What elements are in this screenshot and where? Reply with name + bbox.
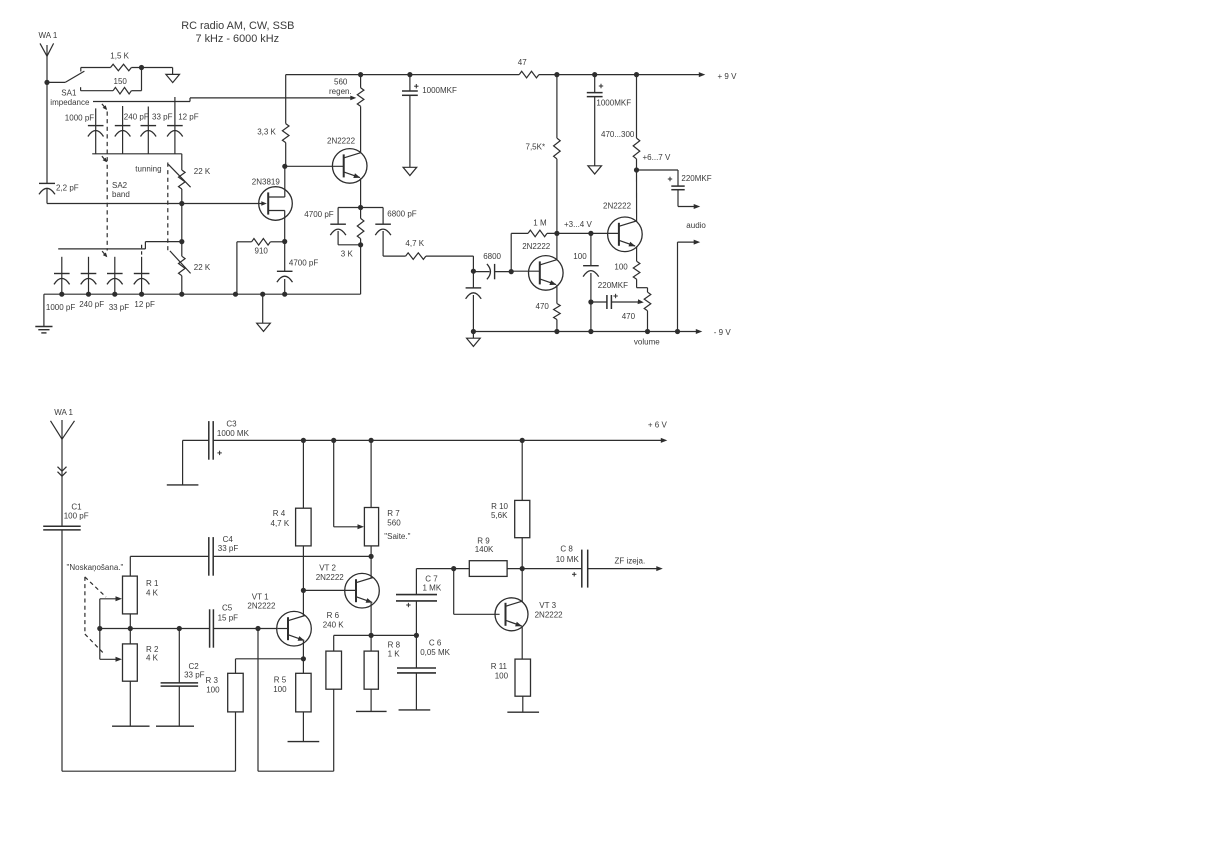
svg-text:R 3: R 3 [206,676,219,685]
wire detector collector up [556,233,558,259]
wire R7 wiper feed [334,440,364,529]
wire audio stage collector [636,170,638,221]
capacitor C3 1000 MK [183,419,250,459]
svg-text:+ 6 V: + 6 V [648,421,668,430]
wire 4,7K to coupling node [426,256,476,274]
wire feedback from base node [258,629,334,772]
ground (earth, left) [35,294,52,333]
svg-text:2N2222: 2N2222 [535,610,564,619]
svg-text:220MKF: 220MKF [598,281,628,290]
resistor 150 [113,77,131,94]
capacitor 240 pF (top bank) [115,106,149,154]
resistor R8 1 K [364,635,401,711]
potentiometer 560 regen [329,75,364,107]
resistor R10 5,6K [491,440,530,568]
wire ground bus (top circuit) [44,292,361,297]
svg-text:R 2: R 2 [146,645,159,654]
svg-text:tunning: tunning [135,164,161,173]
svg-text:12 pF: 12 pF [178,113,199,122]
transistor VT1 2N2222 [247,592,311,646]
svg-text:47: 47 [518,58,527,67]
svg-text:220MKF: 220MKF [681,174,711,183]
svg-text:band: band [112,190,130,199]
transistor VT2 2N2222 [316,563,380,608]
variable resistor 22 K (tuning, upper) [168,154,211,204]
svg-text:470: 470 [622,312,636,321]
svg-text:3,3 K: 3,3 K [257,128,276,137]
svg-text:7 kHz - 6000 kHz: 7 kHz - 6000 kHz [196,33,280,45]
svg-text:33 pF: 33 pF [152,113,173,122]
svg-text:audio: audio [686,221,706,230]
svg-text:2N2222: 2N2222 [522,242,551,251]
potentiometer R7 560 Saite [364,440,410,559]
svg-text:22 K: 22 K [194,263,211,272]
svg-text:VT 1: VT 1 [252,592,269,601]
svg-text:100: 100 [573,252,587,261]
wire 1M to +3..4V node [547,220,618,236]
svg-text:150: 150 [114,77,128,86]
svg-text:R 5: R 5 [274,676,287,685]
wire 1M feed up [511,233,528,271]
wire +6V rail [213,421,667,444]
svg-text:WA 1: WA 1 [54,408,73,417]
ground (C2) [156,725,194,727]
ground (C6) [399,709,431,711]
wire SA1 top throw [81,67,111,69]
svg-text:33 pF: 33 pF [109,303,130,312]
wire bottom-bank switch bus [58,242,182,249]
svg-text:impedance: impedance [50,98,90,107]
antenna WA1 (top) [39,31,58,56]
resistor R6 240 K [323,611,345,689]
node antenna-SA1 junction [44,80,49,85]
wire SA1 bottom throw [81,90,114,92]
svg-text:240 K: 240 K [323,620,345,629]
ground (1000MKF left) [403,167,417,175]
ground (R11) [507,711,539,713]
svg-text:15 pF: 15 pF [218,613,239,622]
wire base node (mid) [97,626,209,631]
capacitor 4700 pF (source bypass) [277,242,318,295]
ground (R8) [356,710,387,712]
capacitor 33 pF (bottom bank) [107,257,129,312]
svg-text:100 pF: 100 pF [64,511,89,520]
wire emitter node horizontal [338,207,383,209]
ground (SA1) [166,74,180,82]
svg-text:100: 100 [273,685,287,694]
capacitor 2,2 pF [39,183,79,203]
svg-text:RC radio AM, CW, SSB: RC radio AM, CW, SSB [181,20,294,32]
wire 1,5K to ground [131,65,172,75]
transistor 2N2222 (detector) [522,242,563,290]
wire -9V bus [471,328,732,337]
svg-text:560: 560 [334,78,348,87]
resistor 1,5 K [110,52,131,71]
svg-text:7,5K*: 7,5K* [526,143,546,152]
resistor R2 4 K (trimmer) [123,629,160,727]
capacitor 4700 pF (emitter left) [304,208,360,245]
svg-text:R 6: R 6 [327,611,340,620]
svg-text:240 pF: 240 pF [124,113,149,122]
capacitor 1000 pF (bottom bank) [46,257,75,312]
resistor R1 4 K (trimmer) [123,556,160,628]
svg-text:2N3819: 2N3819 [252,177,281,186]
svg-text:1 K: 1 K [388,649,401,658]
svg-text:10 MK: 10 MK [556,555,580,564]
svg-text:12 pF: 12 pF [134,300,155,309]
capacitor 1000MKF (left) [402,75,457,168]
svg-text:R 10: R 10 [491,502,508,511]
svg-text:ZF izeja.: ZF izeja. [615,556,646,565]
switch SA2 (band) dashed linkage with blades [102,104,130,257]
svg-text:+3...4 V: +3...4 V [564,220,592,229]
wire impedance bus to regen pot [93,96,356,102]
resistor 3 K [341,208,364,259]
resistor 910 [237,239,285,295]
svg-text:2N2222: 2N2222 [327,137,356,146]
wire VT3 base path [454,569,500,615]
wire VT1 emitter node [236,641,307,662]
wire collector to regen pot [360,106,362,152]
wire drain up to base node [284,166,286,197]
svg-text:C2: C2 [189,662,200,671]
capacitor 33 pF (top bank) [141,107,173,154]
svg-text:WA 1: WA 1 [39,31,58,40]
ground (C3) [167,440,199,485]
resistor R5 100 [273,659,311,742]
svg-text:volume: volume [634,338,660,347]
svg-text:C 8: C 8 [560,545,573,554]
svg-text:2N2222: 2N2222 [316,573,345,582]
capacitor 1000 pF (top bank) [65,108,104,153]
svg-text:2N2222: 2N2222 [247,602,276,611]
ground (-9V bus left) [467,332,481,347]
capacitor 240 pF (bottom bank) [79,257,104,309]
wire IF output line [416,566,469,571]
wire antenna down [46,56,48,183]
svg-text:6800 pF: 6800 pF [387,210,416,219]
svg-text:470...300: 470...300 [601,130,635,139]
svg-text:1000MKF: 1000MKF [596,99,631,108]
svg-text:33 pF: 33 pF [184,671,205,680]
svg-text:R 1: R 1 [146,579,159,588]
svg-text:4 K: 4 K [146,654,159,663]
svg-text:1000 pF: 1000 pF [65,113,94,122]
capacitor 6800 (coupling) [473,252,513,280]
resistor 3,3 K [257,75,289,167]
wire base detector stage [511,270,540,272]
wire VT1 collector up [302,590,304,616]
capacitor 100 (base bypass) [573,233,598,304]
wire gate line [47,201,262,206]
svg-text:SA1: SA1 [61,88,77,97]
wire VT2 base [303,589,356,591]
title [181,20,294,45]
transistor 2N2222 (audio) [603,201,642,251]
svg-text:4700 pF: 4700 pF [289,259,318,268]
svg-text:+6...7 V: +6...7 V [643,153,671,162]
svg-text:240 pF: 240 pF [79,300,104,309]
wire 3K to ground bus [360,245,362,294]
wire C1 down to bottom feed [61,530,63,771]
svg-text:4,7 K: 4,7 K [405,239,424,248]
svg-text:1,5 K: 1,5 K [110,52,129,61]
capacitor C5 15 pF [210,603,278,647]
svg-text:VT 2: VT 2 [319,563,336,572]
svg-text:SA2: SA2 [112,181,128,190]
wire emitter down [358,178,363,210]
wire antenna down with chevrons [58,439,67,526]
switch SA1 [47,68,90,107]
audio label and return arrow [678,221,707,332]
capacitor 12 pF (top bank) [167,97,199,154]
svg-text:regen.: regen. [329,87,352,96]
svg-text:1000MKF: 1000MKF [422,86,457,95]
resistor R11 100 [491,627,531,713]
resistor 100 (audio emitter) [614,246,647,287]
ground (R5) [288,741,320,743]
svg-text:1 MK: 1 MK [423,583,442,592]
svg-text:R 11: R 11 [491,662,508,671]
svg-text:- 9 V: - 9 V [714,328,732,337]
R2 wiper arm [100,629,122,662]
capacitor C8 10 MK [556,545,663,588]
node base junction [282,164,287,169]
ground (R2) [112,725,150,727]
resistor 4,7 K [405,239,426,260]
capacitor 12 pF (bottom bank) [134,245,155,309]
svg-text:"Saite.": "Saite." [384,532,410,541]
svg-text:2N2222: 2N2222 [603,201,632,210]
wire +9V rail [286,72,737,81]
svg-text:3 K: 3 K [341,250,354,259]
svg-text:100: 100 [206,685,220,694]
ground (1000MKF right) [588,166,602,174]
svg-text:2,2 pF: 2,2 pF [56,184,79,193]
svg-text:1 M: 1 M [533,218,547,227]
ground (mid stem, triangle) [257,294,271,331]
wire VT3 collector up [521,569,523,602]
resistor 470...300 [601,75,671,173]
transistor 2N2222 (regen stage) [327,137,367,184]
resistor R3 100 [206,659,244,712]
wire 100cap to -9V bus [590,302,592,332]
resistor 47 [518,58,539,78]
svg-text:5,6K: 5,6K [491,511,508,520]
resistor 7,5K* [526,75,561,234]
svg-text:C 7: C 7 [425,574,438,583]
wire 22K to lower bus [179,204,184,245]
svg-text:22 K: 22 K [194,167,211,176]
svg-text:1000 MK: 1000 MK [217,429,250,438]
svg-text:C3: C3 [226,419,237,428]
svg-text:R 7: R 7 [387,509,400,518]
svg-text:0,05 MK: 0,05 MK [420,648,450,657]
svg-text:100: 100 [614,263,628,272]
capacitor (bypass below coupling node) [466,271,482,331]
svg-text:1000 pF: 1000 pF [46,303,75,312]
resistor 470 (detector emitter) [536,285,561,332]
svg-text:+ 9 V: + 9 V [718,72,738,81]
capacitor 6800 pF [375,208,416,257]
potentiometer 470 volume [622,288,661,347]
svg-text:VT 3: VT 3 [539,601,556,610]
wire 150 up to node [131,68,141,91]
svg-text:33 pF: 33 pF [218,544,239,553]
wire bottom feed to R3 [62,712,236,771]
capacitor C4 33 pF [130,535,371,576]
svg-text:R 4: R 4 [273,509,286,518]
svg-text:6800: 6800 [483,252,501,261]
svg-text:C 6: C 6 [429,639,442,648]
capacitor 1000MKF (right) [587,75,631,166]
svg-text:910: 910 [255,247,269,256]
wire 6800pF to 4,7K [383,255,406,257]
Noskanosana dashed callout [67,563,124,653]
capacitor C7 1 MK [396,569,442,636]
wire VT2 emitter node [334,603,419,638]
capacitor C6 0,05 MK [397,635,451,710]
resistor R4 4,7 K [271,440,312,593]
variable resistor 22 K (tuning, lower) [170,242,211,295]
resistor R9 140K [469,537,582,577]
R1 wiper arm [100,596,122,628]
svg-text:100: 100 [495,671,509,680]
svg-text:4 K: 4 K [146,588,159,597]
capacitor C1 100 pF [43,503,89,530]
svg-text:4,7 K: 4,7 K [271,519,290,528]
transistor VT3 2N2222 [495,598,563,631]
svg-text:"Noskaņošana.": "Noskaņošana." [67,563,124,572]
wire top-bank bottom bus [92,153,182,155]
resistor 1 M [528,218,547,236]
capacitor 220MKF (volume) [591,281,644,309]
svg-text:140K: 140K [475,545,494,554]
svg-text:560: 560 [387,519,401,528]
svg-text:C5: C5 [222,603,233,612]
svg-text:4700 pF: 4700 pF [304,210,333,219]
tuning dashed linkage [135,163,168,251]
transistor 2N3819 JFET [252,177,293,220]
wire VT2 collector up [370,556,372,578]
capacitor C2 33 pF [161,629,205,727]
capacitor 220MKF (audio out) [637,170,712,209]
wire source down [282,211,287,245]
wire base to 2N2222 (regen stage) [285,165,344,167]
svg-text:470: 470 [536,302,550,311]
antenna WA1 (bottom) [51,408,75,439]
